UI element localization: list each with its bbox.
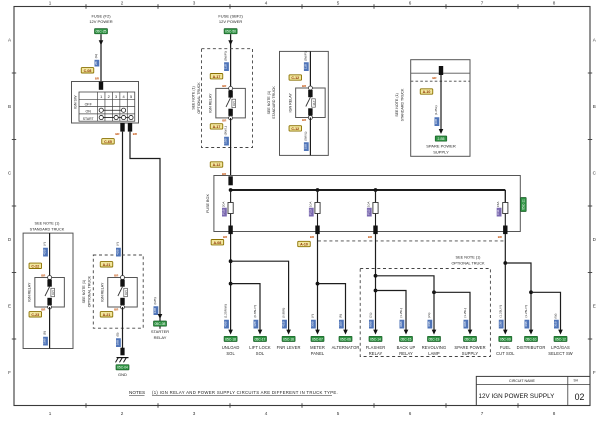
svg-text:A-21: A-21 [103,263,111,267]
svg-text:IGN RELAY: IGN RELAY [101,282,105,302]
svg-text:A-12: A-12 [213,163,221,167]
svg-text:5: 5 [337,0,340,5]
svg-text:SELECT SW: SELECT SW [548,351,573,356]
svg-text:E: E [593,303,596,308]
svg-text:2: 2 [108,94,110,99]
svg-text:1: 1 [49,0,52,5]
svg-text:(5W/R): (5W/R) [224,51,228,61]
svg-text:F15: F15 [221,209,225,215]
svg-text:(R): (R) [338,314,342,318]
svg-text:C-65: C-65 [104,140,112,144]
svg-text:05C-06: 05C-06 [340,337,351,341]
svg-text:8: 8 [553,0,556,5]
svg-text:UNLOAD: UNLOAD [222,345,240,350]
svg-text:02: 02 [575,392,585,402]
svg-text:2: 2 [121,411,124,416]
svg-text:CUT SOL: CUT SOL [496,351,515,356]
svg-text:SEE NOTE (1): SEE NOTE (1) [456,256,482,260]
svg-text:SOL: SOL [226,351,235,356]
svg-text:12V POWER: 12V POWER [89,19,112,24]
svg-text:16B: 16B [43,338,47,344]
svg-text:15A: 15A [496,201,500,207]
svg-text:05C-04: 05C-04 [117,366,128,370]
svg-text:(Y): (Y) [310,314,314,318]
svg-text:A-10: A-10 [300,243,308,247]
svg-text:90B: 90B [463,321,467,327]
svg-text:05C-12: 05C-12 [555,337,566,341]
svg-text:LAMP: LAMP [428,351,440,356]
svg-text:STANDARD TRUCK: STANDARD TRUCK [272,86,276,119]
svg-text:C-22: C-22 [31,264,39,268]
svg-text:(5W/L): (5W/L) [224,126,228,135]
svg-text:IGN RELAY: IGN RELAY [209,93,213,113]
svg-text:11B: 11B [338,321,342,326]
svg-text:80B: 80B [368,321,372,327]
svg-text:16B: 16B [115,340,119,346]
svg-text:13B: 13B [498,321,502,327]
svg-text:2: 2 [121,0,124,5]
svg-text:40B: 40B [224,321,228,327]
svg-text:2-B5: 2-B5 [438,137,445,141]
svg-text:START: START [83,117,94,121]
svg-text:(5W/R): (5W/R) [303,51,307,61]
svg-text:30B: 30B [310,321,314,327]
svg-text:(G): (G) [94,54,98,58]
svg-text:A-10: A-10 [423,90,431,94]
svg-text:SUPPLY: SUPPLY [433,149,449,154]
svg-text:8: 8 [553,411,556,416]
svg-text:PANEL: PANEL [311,351,325,356]
svg-text:20A: 20A [221,201,225,207]
svg-text:BACK UP: BACK UP [397,345,416,350]
svg-text:STARTER: STARTER [151,329,169,334]
svg-text:RLY: RLY [124,290,128,295]
svg-text:(B): (B) [115,333,119,337]
svg-text:RELAY: RELAY [369,351,383,356]
svg-text:10B: 10B [434,119,438,125]
svg-text:RELAY: RELAY [399,351,413,356]
svg-text:5: 5 [130,94,132,99]
svg-text:DISTRIBUTOR: DISTRIBUTOR [517,345,546,350]
svg-text:7: 7 [481,411,484,416]
svg-text:F: F [593,370,596,375]
svg-text:SEE NOTE (1): SEE NOTE (1) [192,86,196,110]
svg-text:05C-17: 05C-17 [255,337,266,341]
svg-text:ALTERNATOR: ALTERNATOR [332,345,360,350]
svg-text:6: 6 [409,0,412,5]
svg-text:C-08: C-08 [84,69,92,73]
svg-text:15B: 15B [224,138,228,144]
svg-text:FUSE (SBF2): FUSE (SBF2) [218,13,243,18]
svg-text:IGN SW: IGN SW [74,95,78,109]
svg-text:(R/B): (R/B) [153,297,157,304]
svg-text:41B: 41B [282,321,286,327]
svg-text:33B: 33B [524,321,528,327]
svg-text:C-12: C-12 [291,76,299,80]
svg-text:05C-11: 05C-11 [522,199,526,210]
svg-text:(1.25R/W): (1.25R/W) [224,304,228,318]
svg-text:42B: 42B [43,249,47,255]
svg-text:4: 4 [265,411,268,416]
svg-text:05C-14: 05C-14 [370,337,381,341]
svg-text:12V POWER: 12V POWER [219,19,242,24]
svg-text:GND: GND [118,372,127,377]
svg-text:FNR LEVER: FNR LEVER [277,345,301,350]
svg-text:31B: 31B [553,321,557,327]
svg-text:05C-20: 05C-20 [465,337,476,341]
svg-text:(0.85L/Y): (0.85L/Y) [253,305,257,318]
svg-text:05C-07: 05C-07 [312,337,323,341]
svg-text:(1.25L): (1.25L) [434,105,438,115]
svg-text:B: B [593,104,596,109]
svg-text:A-17: A-17 [213,75,221,79]
svg-text:(1.25L/Y): (1.25L/Y) [498,305,502,318]
svg-text:FUEL: FUEL [500,345,511,350]
svg-text:33B: 33B [427,321,431,327]
svg-text:(1.25L/Y): (1.25L/Y) [524,305,528,318]
svg-text:3: 3 [193,411,196,416]
svg-text:10A: 10A [308,201,312,207]
svg-text:05C-09: 05C-09 [500,337,511,341]
svg-text:(2L): (2L) [368,313,372,319]
svg-text:STANDARD TRUCK: STANDARD TRUCK [400,88,404,121]
svg-text:F13: F13 [308,209,312,215]
svg-text:(1) IGN RELAY AND POWER SUPPLY: (1) IGN RELAY AND POWER SUPPLY CIRCUITS … [152,390,338,395]
svg-text:RLY: RLY [232,101,236,106]
svg-text:1: 1 [100,94,102,99]
svg-text:RLY: RLY [51,290,55,295]
svg-text:F11: F11 [496,209,500,214]
svg-text:SEE NOTE (1): SEE NOTE (1) [395,93,399,117]
svg-text:SEE NOTE (1): SEE NOTE (1) [267,91,271,115]
svg-text:(W): (W) [553,314,557,319]
svg-text:F12: F12 [366,209,370,215]
svg-text:05C-08: 05C-08 [155,322,166,326]
svg-text:SEE NOTE (1): SEE NOTE (1) [35,222,61,226]
svg-text:SEE NOTE (1): SEE NOTE (1) [82,280,86,304]
svg-text:7: 7 [481,0,484,5]
svg-text:OPTIONAL TRUCK: OPTIONAL TRUCK [197,82,201,114]
svg-text:3: 3 [193,0,196,5]
svg-text:(B): (B) [43,331,47,335]
svg-text:4: 4 [265,0,268,5]
svg-text:42B: 42B [115,249,119,255]
svg-text:(5W/L): (5W/L) [303,132,307,141]
svg-text:A-08: A-08 [214,241,222,245]
svg-text:REVOLVING: REVOLVING [422,345,446,350]
svg-text:(2L): (2L) [427,313,431,319]
svg-text:FUSE (F2): FUSE (F2) [91,13,111,18]
svg-text:(0.85R): (0.85R) [282,308,286,318]
svg-text:(1.25L): (1.25L) [399,308,403,318]
svg-text:LIFT LOCK: LIFT LOCK [249,345,271,350]
svg-text:C-12: C-12 [291,127,299,131]
svg-text:STANDARD TRUCK: STANDARD TRUCK [30,228,65,232]
svg-text:C-23: C-23 [31,313,39,317]
svg-text:OPTIONAL TRUCK: OPTIONAL TRUCK [88,275,92,307]
svg-text:10A: 10A [366,201,370,207]
svg-text:(1.25L): (1.25L) [463,308,467,318]
svg-text:A-21: A-21 [103,313,111,317]
svg-text:NOTES: NOTES [129,390,145,395]
svg-text:42B: 42B [253,321,257,327]
svg-text:OPTIONAL TRUCK: OPTIONAL TRUCK [451,262,485,266]
svg-text:SOL: SOL [256,351,265,356]
svg-text:96B: 96B [399,321,403,327]
svg-text:05C-50: 05C-50 [225,30,236,34]
svg-text:IGN RELAY: IGN RELAY [28,282,32,302]
svg-text:OFF: OFF [85,102,93,106]
svg-text:1: 1 [49,411,52,416]
svg-text:05C-10: 05C-10 [526,337,537,341]
svg-text:(Y): (Y) [43,242,47,246]
svg-text:LPG/GAS: LPG/GAS [551,345,570,350]
svg-text:6: 6 [409,411,412,416]
svg-text:FLASHER: FLASHER [366,345,386,350]
svg-text:SUPPLY: SUPPLY [462,351,479,356]
svg-text:5: 5 [337,411,340,416]
svg-text:E: E [8,303,11,308]
svg-text:12V IGN POWER SUPPLY: 12V IGN POWER SUPPLY [479,393,556,400]
svg-text:SPARE POWER: SPARE POWER [454,345,485,350]
svg-text:3: 3 [115,94,117,99]
svg-text:RLY: RLY [312,100,316,105]
svg-text:SH: SH [573,379,578,383]
svg-text:05C-18: 05C-18 [225,337,236,341]
svg-text:CIRCUIT NAME: CIRCUIT NAME [509,379,535,383]
svg-text:SPARE POWER: SPARE POWER [426,143,456,148]
svg-text:ON: ON [86,110,92,114]
svg-text:2B: 2B [94,61,98,65]
svg-text:05C-19: 05C-19 [429,337,440,341]
svg-text:IGN RELAY: IGN RELAY [288,93,292,113]
svg-text:RELAY: RELAY [154,335,167,340]
svg-text:A-17: A-17 [213,125,221,129]
svg-text:B: B [8,104,11,109]
svg-text:12B: 12B [153,308,157,314]
svg-text:15B: 15B [303,144,307,150]
svg-text:05C-16: 05C-16 [283,337,294,341]
svg-text:05C-15: 05C-15 [401,337,412,341]
svg-text:F: F [8,370,11,375]
svg-text:11B: 11B [303,64,307,69]
svg-text:METER: METER [310,345,325,350]
svg-text:11B: 11B [224,64,228,69]
svg-text:05C-25: 05C-25 [96,30,107,34]
svg-text:(Y): (Y) [115,242,119,246]
svg-text:FUSE BOX: FUSE BOX [206,194,210,213]
